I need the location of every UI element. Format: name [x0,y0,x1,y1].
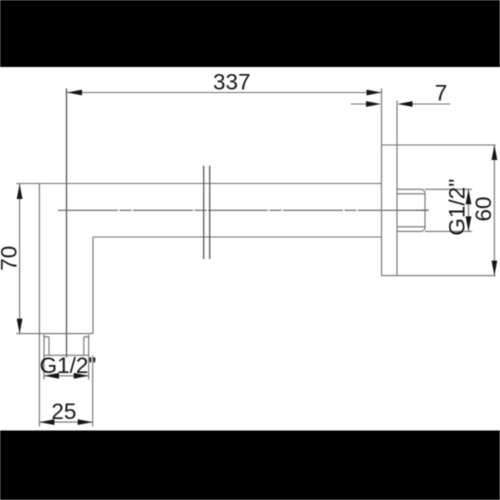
dim 7 right tail [410,103,450,105]
shoulder line + 70 extension [16,333,93,335]
svg-text:25: 25 [51,399,76,424]
dim 25 arrowheads [39,419,54,425]
nipple bottom root [397,226,425,228]
pipe top edge + 70 extension [16,183,381,185]
dim 337 arrowheads [67,90,82,96]
svg-text:G1/2": G1/2" [40,353,97,378]
dim 25 right extension line [92,356,94,427]
nipple top chamfer [423,189,426,192]
vertical pipe center line (337 extension) [66,89,68,358]
flange top edge + 60 extension [382,144,496,146]
horizontal pipe center line [58,209,429,211]
left thread root left [48,337,50,356]
dim 337 line [67,92,382,94]
flange bottom edge + 60 extension [382,275,496,277]
bottom letterbox bar [0,431,500,500]
pipe bottom edge [93,236,382,238]
left thread chamfer ticks [44,336,89,338]
flange front face + 337 extension [381,89,383,276]
dim 7 left tail [351,103,369,105]
dim G1/2 left extension lines [44,355,89,379]
nipple bottom chamfer [423,229,426,232]
ring line 1 [203,166,205,260]
left thread bottom end [44,354,89,356]
nipple top root [397,193,425,195]
left thread crest left [43,335,45,356]
dim 7 arrowheads (outside) [366,101,381,107]
dim 60 line [493,145,495,276]
svg-text:70: 70 [0,246,22,271]
dim 70 arrowheads [17,184,23,199]
svg-text:337: 337 [213,70,251,95]
dim G1/2 right arrowheads [466,189,472,204]
vertical pipe left edge + 25 extension [38,184,40,427]
dim G1/2 right line [468,189,470,231]
flange back face + 7 extension [396,101,398,276]
dim 25 line [39,421,92,423]
center line end stub [416,209,429,211]
dim 60 arrowheads [492,145,498,160]
dim 70 line [19,184,21,334]
dim G1/2 left line [44,375,89,377]
left thread crest right [88,335,90,356]
ring line 2 [209,166,211,260]
nipple bottom crest + G1/2 extension [397,230,472,232]
svg-text:7: 7 [435,81,448,106]
vertical pipe right edge [92,237,94,334]
top letterbox bar [0,0,500,67]
svg-text:60: 60 [471,196,496,221]
left thread root right [83,337,85,356]
nipple top crest + G1/2 extension [397,188,472,190]
nipple end face [424,192,426,229]
dim G1/2 left arrowheads [44,373,59,379]
svg-text:G1/2": G1/2" [445,179,470,236]
